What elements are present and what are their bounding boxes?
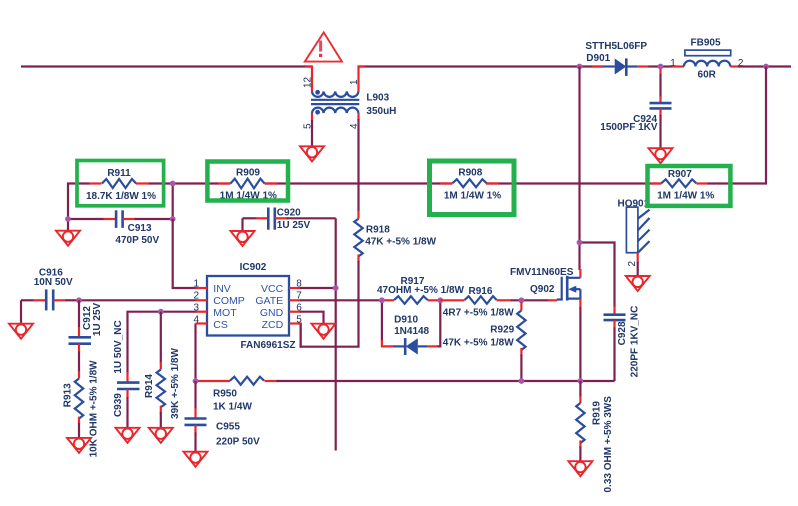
wire MOT net to C939: [128, 312, 197, 373]
svg-text:1: 1: [193, 278, 199, 289]
ground under R914: [149, 428, 173, 443]
capacitor C924: [600, 67, 671, 148]
svg-text:R907: R907: [668, 169, 692, 180]
pin 1 lead: [359, 67, 366, 92]
wire VCC pin 8 to riser: [300, 287, 336, 289]
wire VCC riser: [335, 218, 337, 450]
resistor R917: [377, 276, 465, 304]
resistor R919: [576, 381, 614, 493]
svg-text:VCC: VCC: [261, 283, 284, 295]
svg-text:R909: R909: [236, 168, 260, 179]
svg-text:R914: R914: [144, 374, 155, 398]
svg-text:INV: INV: [213, 283, 231, 295]
wire C913 node to ground: [67, 219, 69, 231]
capacitor C928: [604, 306, 641, 381]
ground under C924: [649, 148, 673, 163]
wire drain riser from top rail: [578, 67, 580, 243]
junction dot top rail / C924: [658, 64, 664, 70]
pin 1 INV: [196, 287, 208, 289]
wire FB905 node 1 lead: [661, 65, 673, 67]
wire drain riser to MOSFET: [578, 243, 580, 271]
wire R950 to snubber bus: [277, 380, 615, 382]
wire R908 to R907: [486, 182, 661, 184]
resistor R908: [440, 167, 501, 201]
junction dot R929 / bus: [519, 378, 525, 384]
svg-text:FMV11N60ES: FMV11N60ES: [510, 267, 574, 278]
primary winding: [312, 92, 358, 97]
svg-text:10N 50V: 10N 50V: [34, 277, 73, 288]
wire R911 to R909: [148, 182, 231, 184]
wire R907 to right riser: [707, 67, 766, 184]
ground under C939: [116, 428, 140, 443]
ground at IC pin 6: [312, 324, 336, 339]
wire INV net from C913 node to IC pin 1: [173, 219, 197, 288]
svg-text:470P 50V: 470P 50V: [115, 235, 159, 246]
wire top rail left to transformer pin 12: [21, 65, 312, 67]
core: [311, 99, 359, 101]
svg-text:GATE: GATE: [255, 295, 283, 307]
svg-text:CS: CS: [213, 319, 228, 331]
svg-text:STTH5L06FP: STTH5L06FP: [585, 41, 647, 52]
heatsink HQ901: [618, 198, 650, 275]
highlight box R907: [648, 166, 731, 206]
wire R918 to ZCD corner: [301, 261, 359, 347]
wire transformer pin 1 to D901: [359, 65, 604, 67]
svg-text:D910: D910: [394, 314, 418, 325]
junction dot CS / R950 / C955: [193, 378, 199, 384]
capacitor C916: [21, 268, 79, 311]
secondary winding: [312, 108, 358, 113]
svg-text:R908: R908: [458, 167, 482, 178]
pin 6 GND: [289, 311, 301, 313]
svg-text:COMP: COMP: [213, 295, 245, 307]
svg-text:2: 2: [738, 58, 744, 69]
svg-text:1M 1/4W 1%: 1M 1/4W 1%: [444, 191, 501, 202]
svg-text:C939: C939: [113, 393, 124, 417]
junction dot MOT / R914: [158, 309, 164, 315]
svg-text:1U 50V_NC: 1U 50V_NC: [113, 320, 124, 373]
wire D901 cathode to FB905 node: [648, 65, 661, 67]
svg-text:2: 2: [193, 291, 199, 302]
pin 2 lead: [637, 253, 639, 263]
pin 4 CS: [196, 322, 208, 324]
svg-text:1M 1/4W 1%: 1M 1/4W 1%: [657, 191, 714, 202]
svg-text:1U 25V: 1U 25V: [92, 302, 103, 336]
resistor R907: [651, 169, 715, 202]
wire R916 to Q902 gate: [511, 299, 549, 301]
svg-text:1U 25V: 1U 25V: [277, 220, 311, 231]
wire FB905 pin 2 to right edge: [738, 65, 791, 67]
svg-text:4R7 +-5% 1/8W: 4R7 +-5% 1/8W: [443, 308, 514, 319]
svg-text:R918: R918: [366, 224, 390, 235]
svg-text:350uH: 350uH: [366, 106, 396, 117]
svg-text:0.33 OHM +-5% 3WS: 0.33 OHM +-5% 3WS: [603, 396, 614, 493]
resistor R929: [443, 302, 526, 381]
svg-text:D901: D901: [586, 53, 610, 64]
pin 5 ZCD: [289, 322, 301, 324]
svg-text:R950: R950: [213, 389, 237, 400]
capacitor C912: [69, 300, 104, 352]
svg-text:C913: C913: [128, 223, 152, 234]
svg-text:C928: C928: [617, 321, 628, 345]
svg-text:3: 3: [193, 302, 199, 313]
svg-text:R913: R913: [63, 383, 74, 407]
diode D910 bypass loop: [382, 300, 440, 355]
highlight box R911: [77, 161, 164, 206]
capacitor C920: [243, 208, 336, 232]
junction dot sense/R911 right: [170, 181, 176, 187]
pin 2 COMP: [196, 299, 208, 301]
svg-text:FB905: FB905: [690, 38, 720, 49]
svg-text:1K 1/4W: 1K 1/4W: [213, 402, 252, 413]
resistor R913: [63, 352, 100, 458]
svg-text:220PF 1KV_NC: 220PF 1KV_NC: [630, 306, 641, 378]
junction dot C916 / C912: [76, 297, 82, 303]
resistor R918: [354, 211, 436, 263]
junction dot VCC: [333, 285, 339, 291]
resistor R916: [440, 286, 514, 319]
svg-text:18.7K 1/8W 1%: 18.7K 1/8W 1%: [86, 191, 156, 202]
wire C920 left to ground: [241, 218, 243, 231]
ground under R913: [67, 438, 91, 453]
junction dot top rail / drain: [577, 64, 583, 70]
svg-text:R919: R919: [592, 401, 603, 425]
wire CS pin 4 down: [194, 324, 196, 382]
ground under C913 left node: [56, 231, 80, 246]
svg-text:1: 1: [349, 79, 360, 85]
channel bar: [566, 276, 569, 301]
wire source to bus: [579, 307, 581, 381]
svg-text:47K +-5% 1/8W: 47K +-5% 1/8W: [365, 237, 436, 248]
svg-text:L903: L903: [366, 93, 389, 104]
svg-text:4: 4: [193, 314, 199, 325]
svg-text:R929: R929: [490, 325, 514, 336]
junction dot gate / R929: [519, 297, 525, 303]
ferrite bead FB905: [670, 38, 744, 81]
svg-text:39K +-5% 1/8W: 39K +-5% 1/8W: [170, 348, 181, 419]
svg-text:C920: C920: [277, 208, 301, 219]
ground under C955: [184, 452, 208, 467]
transistor Q902 FMV11N60ES: [510, 267, 580, 308]
svg-text:ZCD: ZCD: [262, 319, 284, 331]
junction dot R917 left: [379, 297, 385, 303]
wire R909 to R908: [265, 182, 453, 184]
resistor R911: [86, 168, 156, 202]
resistor R950: [196, 377, 278, 413]
gate bar: [557, 277, 562, 300]
svg-text:FAN6961SZ: FAN6961SZ: [240, 340, 295, 351]
wire GND pin 6 to ground: [300, 312, 324, 324]
svg-text:220P 50V: 220P 50V: [216, 437, 260, 448]
ground under C920: [231, 231, 255, 246]
transformer pin 4 / R918 upper run: [357, 119, 359, 212]
junction dot top rail / sense divider: [763, 64, 769, 70]
svg-text:47OHM +-5% 1/8W: 47OHM +-5% 1/8W: [377, 285, 465, 296]
wire C928 branch top: [580, 243, 615, 308]
pin 8 VCC: [289, 287, 301, 289]
junction dot C913 right: [170, 216, 176, 222]
resistor R914: [144, 312, 181, 428]
transformer L903: [303, 67, 397, 147]
wire sense line R911 left corner: [68, 184, 90, 220]
svg-text:IC902: IC902: [240, 262, 267, 273]
ground under R919: [568, 461, 592, 476]
svg-text:1500PF 1KV: 1500PF 1KV: [600, 122, 658, 133]
svg-text:5: 5: [303, 123, 314, 129]
svg-text:Q902: Q902: [530, 284, 555, 295]
svg-text:GND: GND: [260, 307, 284, 319]
junction dot source / bus: [578, 378, 584, 384]
diode D901: [585, 41, 648, 76]
drain stub: [567, 277, 580, 279]
pin 5 lead: [311, 113, 313, 121]
svg-text:10K OHM +-5% 1/8W: 10K OHM +-5% 1/8W: [89, 360, 100, 458]
capacitor C939: [113, 320, 140, 427]
pin 7 GATE: [289, 299, 301, 301]
svg-text:60R: 60R: [698, 70, 717, 81]
svg-text:1: 1: [670, 58, 676, 69]
svg-text:R916: R916: [469, 286, 493, 297]
wire ZCD pin 5 stub down: [300, 324, 302, 348]
resistor R909: [218, 168, 278, 202]
ground under heatsink pin 2: [626, 276, 650, 291]
junction dot C913 left: [65, 216, 71, 222]
ground under C916: [9, 324, 33, 339]
wire GATE pin 7 to R917: [300, 299, 382, 301]
capacitor C913: [68, 210, 173, 246]
svg-text:12: 12: [303, 76, 314, 88]
capacitor C955: [185, 381, 261, 452]
pin 4 lead: [357, 113, 359, 120]
pin 3 MOT: [196, 311, 208, 313]
wire pin 5 to ground: [311, 120, 313, 146]
junction dot drain / C928: [577, 240, 583, 246]
junction dot R917 right: [437, 297, 443, 303]
svg-text:47K +-5% 1/8W: 47K +-5% 1/8W: [443, 337, 514, 348]
svg-text:1N4148: 1N4148: [394, 326, 429, 337]
wire COMP net to IC pin 2: [79, 299, 197, 301]
warning symbol: [305, 32, 342, 61]
source stub: [567, 289, 580, 298]
body arrow: [568, 286, 576, 293]
highlight box R909: [207, 162, 288, 201]
highlight box R908: [430, 161, 515, 215]
pin 12 lead: [305, 67, 312, 92]
svg-text:2: 2: [627, 261, 638, 267]
svg-text:R911: R911: [107, 168, 131, 179]
svg-text:MOT: MOT: [213, 307, 237, 319]
wire sense node to C913 right node: [172, 184, 174, 220]
svg-text:C955: C955: [216, 422, 240, 433]
wire C916 left to ground: [20, 300, 22, 323]
ground under transformer pin 5: [300, 146, 324, 161]
op-amp controller IC902 FAN6961SZ: [193, 262, 302, 351]
